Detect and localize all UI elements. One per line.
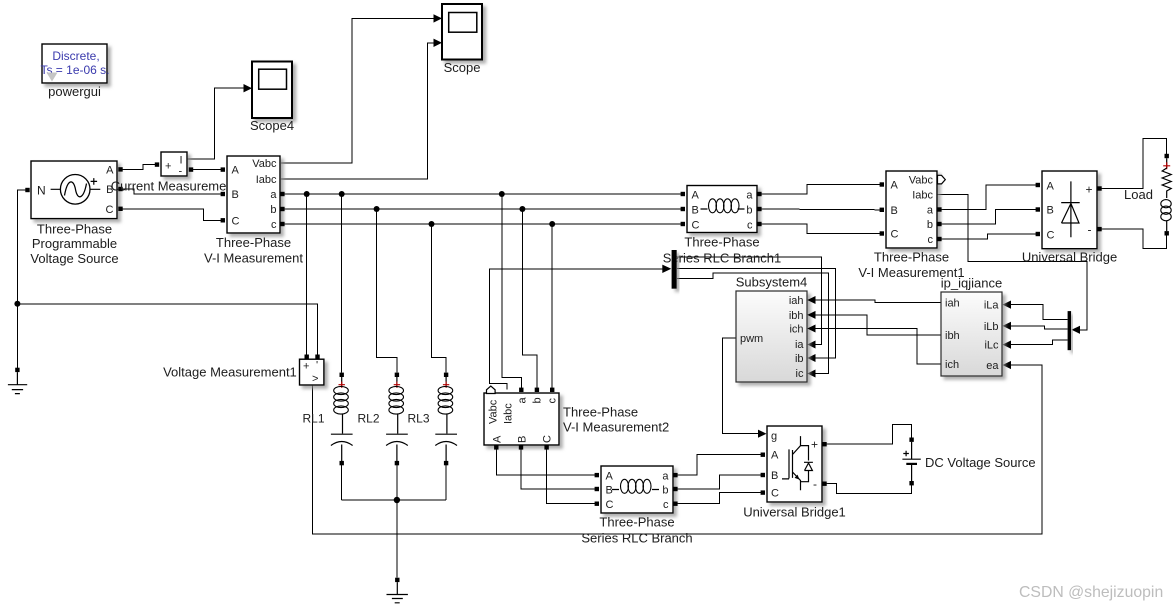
svg-text:Series RLC Branch1: Series RLC Branch1 [663, 251, 782, 266]
svg-text:': ' [316, 360, 318, 372]
svg-text:C: C [891, 229, 899, 241]
wire RLC1-a-to-VIM1-A [762, 185, 882, 195]
svg-text:B: B [692, 205, 699, 217]
wire railB-to-VIM2-b [522, 209, 537, 389]
svg-text:Vabc: Vabc [909, 174, 934, 186]
current sensor Current Measurement [111, 152, 238, 194]
svg-text:powergui: powergui [48, 84, 101, 99]
svg-text:Vabc: Vabc [488, 399, 500, 424]
svg-text:C: C [232, 215, 240, 227]
node rail-c-dot2 [549, 221, 555, 227]
wire UB-minus-to-Load [1102, 229, 1167, 248]
svg-text:c: c [271, 219, 277, 231]
voltage source U1 Three-Phase Programmable Voltage Source [25, 161, 122, 266]
svg-text:c: c [547, 398, 559, 404]
wire VIM2-Iabc-to-demux1 [490, 269, 664, 390]
svg-text:A: A [606, 471, 614, 483]
svg-text:A: A [492, 435, 504, 443]
wire RLC-b-to-UB1-B [678, 475, 763, 489]
wire railC-to-VIM2-c [551, 224, 553, 389]
wire rail-c [285, 223, 684, 225]
wire VIM1-a-to-UB-A [942, 185, 1038, 210]
svg-text:>: > [312, 373, 318, 385]
svg-text:ip_iqjiance: ip_iqjiance [941, 276, 1002, 291]
svg-text:A: A [771, 450, 779, 462]
svg-text:b: b [532, 397, 544, 403]
svg-text:iLa: iLa [984, 300, 1000, 312]
svg-text:V-I Measurement2: V-I Measurement2 [563, 420, 669, 435]
svg-text:RL2: RL2 [358, 412, 380, 426]
node Vabc unconnected output [938, 175, 946, 184]
svg-text:RL1: RL1 [303, 412, 325, 426]
wire railA-to-VIM2-a [502, 194, 522, 389]
node RL-common-dot [394, 497, 400, 503]
svg-text:a: a [270, 189, 277, 201]
wire VIM1-b-to-UB-B [942, 210, 1038, 225]
wire VIM1-Iabc-to-demux2 [937, 195, 1087, 330]
svg-text:DC Voltage Source: DC Voltage Source [925, 455, 1036, 470]
wire Sub-iah-to-ip-iah [814, 300, 942, 303]
wire RL-common-to-ground [396, 500, 398, 578]
wire rail-a [285, 193, 684, 195]
wire demux2-out3-to-iLc [1010, 340, 1068, 345]
wire rail-b [285, 208, 684, 210]
wire demux2-out2-to-iLb [1010, 326, 1068, 329]
inverter Universal Bridge1 [743, 426, 846, 520]
rlc branch Three-Phase Series RLC Branch [581, 466, 692, 546]
svg-text:C: C [106, 204, 114, 216]
powergui block [40, 44, 109, 99]
wire CM-minus-to-VIM-A [193, 169, 223, 171]
ground G1 (left) [8, 368, 27, 394]
demux Demux1 (near RLC Branch1) [672, 250, 677, 289]
svg-text:Current Measurement: Current Measurement [111, 179, 238, 194]
svg-text:a: a [746, 190, 753, 202]
svg-text:ic: ic [796, 368, 804, 380]
node Vabc unconnected output (up) [487, 386, 496, 394]
svg-text:a: a [927, 205, 934, 217]
svg-text:A: A [106, 164, 114, 176]
svg-text:+: + [1086, 183, 1093, 197]
inductor icon L1h [701, 208, 745, 210]
rlc branch Three-Phase Series RLC Branch1 [663, 186, 782, 266]
svg-text:A: A [891, 180, 899, 192]
svg-text:Universal Bridge: Universal Bridge [1022, 250, 1117, 265]
svg-text:Three-Phase: Three-Phase [37, 221, 112, 236]
wire RL1-bottom [341, 465, 343, 500]
red polarity mark [1163, 162, 1170, 169]
transistor Q1 IGBT icon [782, 436, 813, 490]
wire demux1-out3-to-ic [677, 273, 829, 373]
scope Scope4 [250, 62, 294, 134]
inductor L-load [1161, 200, 1171, 208]
scope Scope [442, 4, 482, 75]
wire VIM-Vabc-to-Scope [281, 18, 435, 163]
diode D1 icon [1061, 181, 1080, 237]
svg-text:ibh: ibh [789, 310, 804, 322]
wire sourceC-to-VIM-C [123, 209, 223, 221]
svg-text:Voltage Measurement1: Voltage Measurement1 [163, 365, 297, 380]
battery DC Voltage Source [902, 438, 1035, 486]
inductor icon L2h [612, 489, 659, 491]
svg-text:+: + [811, 438, 818, 452]
ground G2 (bottom center) [387, 578, 408, 603]
svg-text:B: B [891, 205, 898, 217]
svg-text:b: b [270, 204, 276, 216]
wire railB-to-RL2 [377, 209, 397, 373]
svg-text:a: a [517, 397, 529, 404]
wire N-to-ground [17, 190, 27, 370]
svg-text:c: c [928, 234, 934, 246]
wire railA-to-RL1 [341, 194, 343, 373]
wire UB1-minus-to-DC [826, 484, 912, 494]
node ground-junction [14, 301, 20, 307]
wire RL-common [342, 499, 446, 501]
svg-text:Three-Phase: Three-Phase [874, 250, 949, 265]
node rail-a-dot2 [339, 191, 345, 197]
svg-text:+: + [165, 161, 171, 173]
wire RL3-bottom [445, 465, 447, 500]
wire VIM2-C-to-RLC-C [547, 449, 597, 504]
svg-text:C: C [771, 488, 779, 500]
wire railC-to-RL3 [432, 224, 447, 373]
svg-text:ich: ich [789, 324, 803, 336]
wire pwm-to-g [722, 338, 758, 434]
measurement block Three-Phase V-I Measurement1 [858, 171, 964, 280]
svg-text:Three-Phase: Three-Phase [216, 235, 291, 250]
subsystem ip_iqjiance [941, 276, 1002, 377]
wire VIM2-B-to-RLC-B [521, 449, 597, 490]
svg-text:Discrete,: Discrete, [52, 49, 99, 63]
node rail-a-dot3 [499, 191, 505, 197]
svg-text:iLc: iLc [984, 340, 999, 352]
svg-text:B: B [232, 189, 239, 201]
svg-text:Scope4: Scope4 [250, 118, 294, 133]
svg-text:Three-Phase: Three-Phase [563, 405, 638, 420]
svg-text:Programmable: Programmable [32, 236, 117, 251]
svg-text:Series RLC Branch: Series RLC Branch [581, 531, 692, 546]
svg-text:Iabc: Iabc [912, 190, 933, 202]
wire UB-plus-to-Load [1102, 139, 1167, 189]
svg-text:-: - [179, 166, 183, 178]
svg-text:-: - [813, 477, 817, 491]
svg-text:pwm: pwm [740, 333, 763, 345]
wire RLC-c-to-UB1-C [678, 493, 763, 504]
svg-text:Scope: Scope [444, 60, 481, 75]
svg-text:RL3: RL3 [408, 412, 430, 426]
rectifier Universal Bridge [1022, 171, 1117, 265]
wire RLC1-c-to-VIM1-C [762, 224, 882, 234]
wire railA-to-VM1-plus [306, 194, 308, 355]
svg-text:A: A [232, 165, 240, 177]
rl branch RL3 [408, 373, 458, 466]
wire demux1-out1-to-ia [677, 257, 822, 344]
wire VIM-Iabc-to-Scope [281, 43, 435, 179]
wire Sub-ich-to-ip-ich [814, 329, 942, 365]
svg-text:Universal Bridge1: Universal Bridge1 [743, 505, 846, 520]
svg-text:Iabc: Iabc [503, 403, 515, 424]
svg-text:+: + [303, 361, 309, 373]
svg-text:C: C [606, 499, 614, 511]
svg-text:Subsystem4: Subsystem4 [736, 275, 808, 290]
svg-text:iah: iah [789, 295, 804, 307]
wire junction-to-VM1-minus [17, 304, 317, 355]
wire Sub-ibh-to-ip-ibh [814, 315, 942, 335]
node rail-b-dot2 [519, 206, 525, 212]
wire RLC-a-to-UB1-A [678, 455, 763, 475]
svg-text:Three-Phase: Three-Phase [684, 235, 759, 250]
wire CM-I-to-Scope4 [187, 88, 245, 159]
svg-text:iLb: iLb [984, 321, 999, 333]
rl branch RL1 [303, 373, 353, 466]
svg-text:b: b [662, 485, 668, 497]
svg-text:C: C [692, 220, 700, 232]
wire RL2-bottom [396, 465, 398, 500]
svg-text:-: - [1088, 223, 1092, 237]
wire demux1-out2-to-ib [677, 268, 836, 358]
svg-text:Iabc: Iabc [256, 174, 277, 186]
svg-text:c: c [747, 220, 753, 232]
svg-text:g: g [771, 431, 777, 443]
node rail-c-dot1 [429, 221, 435, 227]
svg-text:A: A [1047, 180, 1055, 192]
wire VM1-v-to-ea [313, 365, 1042, 534]
svg-text:C: C [1047, 230, 1055, 242]
wire VIM1-c-to-UB-C [942, 234, 1038, 239]
node rail-b-dot1 [374, 206, 380, 212]
wire sourceB-to-VIM-B [123, 189, 223, 194]
svg-text:Vabc: Vabc [252, 158, 277, 170]
svg-text:ea: ea [986, 360, 999, 372]
svg-text:ich: ich [945, 359, 959, 371]
demux Demux2 (right of ip_iqjiance) [1068, 311, 1072, 350]
wire RLC1-b-to-VIM1-B [762, 208, 882, 211]
resistor R-load zigzag [1162, 168, 1171, 198]
node rail-a-dot1 [304, 191, 310, 197]
svg-text:B: B [771, 470, 778, 482]
svg-text:ib: ib [795, 353, 804, 365]
svg-text:C: C [542, 435, 554, 443]
svg-text:Three-Phase: Three-Phase [599, 515, 674, 530]
svg-text:N: N [37, 184, 46, 198]
svg-text:A: A [692, 190, 700, 202]
wire sourceA-to-CM [123, 165, 156, 170]
svg-text:B: B [606, 485, 613, 497]
svg-text:b: b [927, 219, 933, 231]
svg-text:b: b [746, 205, 752, 217]
load RL series branch "Load" [1124, 154, 1171, 236]
svg-text:CSDN @shejizuopin: CSDN @shejizuopin [1019, 584, 1163, 601]
svg-text:ia: ia [795, 339, 804, 351]
measurement block Three-Phase V-I Measurement2 (rotated) [484, 386, 669, 450]
svg-text:ibh: ibh [945, 330, 960, 342]
wire VIM2-A-to-RLC-A [496, 449, 596, 476]
svg-text:B: B [1047, 205, 1054, 217]
svg-text:c: c [663, 499, 669, 511]
svg-text:Load: Load [1124, 187, 1153, 202]
measurement block Three-Phase V-I Measurement [204, 156, 303, 266]
svg-text:B: B [517, 436, 529, 443]
svg-text:Voltage Source: Voltage Source [30, 251, 118, 266]
wire demux2-out1-to-iLa [1010, 305, 1068, 320]
svg-text:iah: iah [945, 298, 960, 310]
subsystem Subsystem4 [736, 275, 816, 383]
rl branch RL2 [358, 373, 408, 466]
svg-text:V-I Measurement: V-I Measurement [204, 251, 303, 266]
svg-text:a: a [662, 471, 669, 483]
voltage sensor Voltage Measurement1 [163, 355, 324, 386]
wire UB1-plus-to-DC [826, 425, 912, 445]
